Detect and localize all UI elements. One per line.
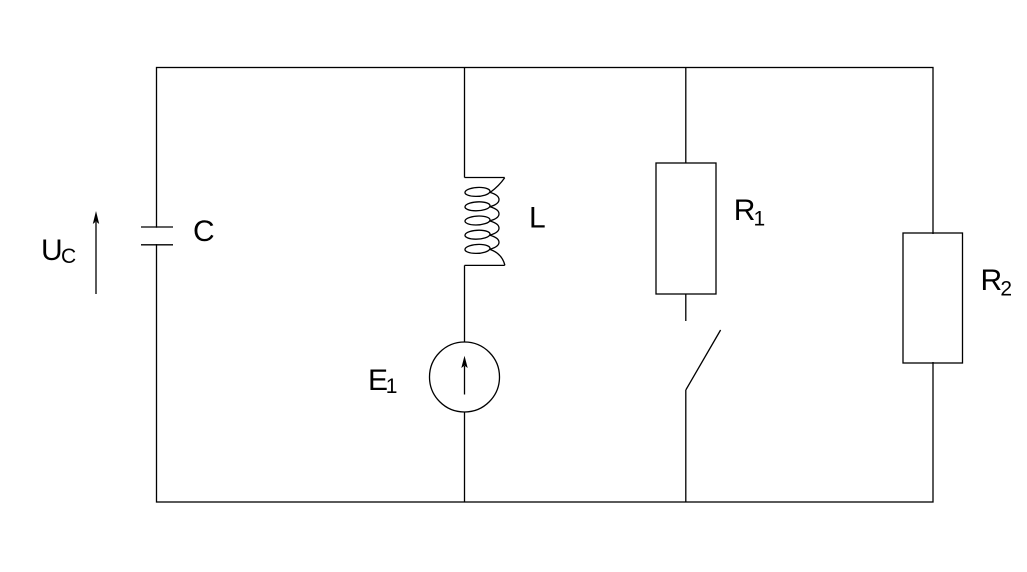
svg-text:2: 2 [1000,277,1012,300]
svg-text:U: U [41,234,63,267]
svg-text:R: R [734,194,756,227]
svg-text:R: R [981,264,1003,297]
svg-text:C: C [193,215,215,248]
svg-text:L: L [529,202,546,235]
svg-text:C: C [61,245,76,268]
svg-text:1: 1 [386,375,398,398]
svg-text:1: 1 [754,207,766,230]
